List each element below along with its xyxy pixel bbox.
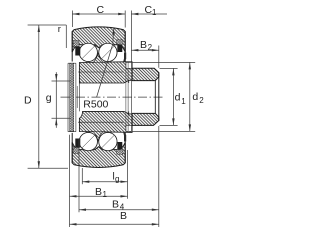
ball bottom-right [99, 132, 117, 150]
dim B2 [131, 46, 158, 68]
bore step verticals [128, 80, 130, 83]
inner ring internal line bottom [78, 121, 124, 123]
outer ring right face [124, 32, 126, 62]
inner ring internal line top [78, 71, 124, 73]
centerline [61, 96, 163, 98]
svg-text:d: d [175, 92, 181, 104]
svg-text:1: 1 [103, 190, 108, 199]
collar bore chamfer line [154, 81, 156, 114]
seal bottom-right [117, 150, 123, 155]
seal top-right [117, 40, 123, 45]
outer ring left face [71, 32, 73, 62]
collar right face [158, 73, 160, 121]
svg-text:B: B [120, 210, 127, 222]
dim C1 [131, 11, 167, 62]
dim lg [82, 150, 127, 199]
collar top band [132, 68, 159, 80]
inner ring bottom band [79, 111, 132, 132]
dim d2 [132, 62, 196, 131]
seal bottom-left [74, 148, 80, 154]
dim g [52, 72, 72, 128]
seal top-left [74, 41, 80, 47]
right plate [126, 62, 132, 68]
svg-text:r: r [58, 24, 61, 35]
dim D line [28, 25, 68, 168]
svg-text:1: 1 [152, 8, 157, 17]
svg-text:R500: R500 [83, 99, 108, 111]
seal lip bottom-right [123, 133, 126, 142]
svg-text:B: B [140, 39, 147, 51]
inner ring left face lines [76, 86, 78, 108]
svg-text:g: g [46, 92, 52, 104]
seal lip top-right [123, 53, 126, 62]
inner ring top band [79, 62, 132, 83]
bottom balls rib [93, 132, 103, 141]
svg-text:2: 2 [148, 43, 153, 52]
ball top-right [99, 43, 117, 61]
dim d1 [160, 68, 178, 125]
svg-text:1: 1 [181, 97, 186, 106]
ball cradle gaps [79, 43, 98, 62]
svg-text:g: g [115, 175, 119, 184]
outer ring bottom section [72, 142, 125, 167]
dim C [72, 11, 125, 28]
dim B4 [79, 126, 159, 227]
svg-text:C: C [97, 4, 105, 16]
svg-text:B: B [112, 199, 119, 211]
left end plate [70, 63, 74, 132]
top balls rib [93, 53, 103, 62]
svg-text:B: B [95, 186, 102, 198]
svg-text:2: 2 [199, 96, 204, 105]
svg-text:D: D [24, 95, 32, 107]
ball top-left [79, 43, 97, 61]
outer ring top section [72, 27, 125, 52]
R500 leader [97, 34, 114, 98]
collar bottom band [132, 113, 159, 125]
dim B1 [70, 135, 128, 227]
ball bottom-left [79, 132, 97, 150]
r reference line [65, 25, 67, 48]
svg-text:d: d [192, 91, 198, 103]
dim B [70, 223, 159, 225]
